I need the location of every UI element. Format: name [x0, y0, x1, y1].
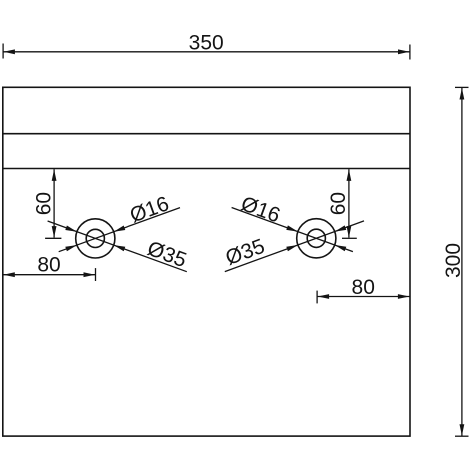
dimension 350 line: [3, 51, 410, 53]
hole H2 inner circle diameter 16: [307, 229, 325, 247]
svg-text:60: 60: [327, 192, 350, 215]
leader arrow d35 H2 upper-right: [335, 225, 347, 231]
svg-text:300: 300: [442, 243, 465, 278]
dimension 80 left arrow left: [3, 272, 15, 277]
dimension 60 left line: [53, 169, 55, 237]
panel outline rectangle 350x300: [3, 87, 410, 436]
dimension 80 left arrow right: [84, 272, 96, 277]
leader arrow d16 H2 lower-right: [335, 245, 347, 251]
hole H1 inner circle diameter 16: [86, 229, 104, 247]
dimension 350 extension tick left: [2, 44, 4, 59]
dimension 60 left center tick: [45, 237, 61, 239]
dimension 60 right center tick: [342, 237, 357, 239]
leader line diameter 35 hole H1: [48, 221, 187, 272]
svg-text:80: 80: [37, 254, 60, 277]
leader line diameter 16 hole H2: [232, 208, 353, 252]
dimension 300 arrow top: [460, 88, 465, 100]
svg-text:Ø35: Ø35: [144, 237, 189, 272]
leader arrow d35 H1 upper-left: [65, 226, 77, 232]
dimension 60 right arrow down: [347, 226, 352, 238]
leader arrow d16 H2 upper-left: [286, 225, 298, 231]
dimension 300 line: [461, 88, 463, 436]
hole H2 outer circle diameter 35: [297, 219, 336, 258]
svg-text:Ø16: Ø16: [127, 192, 172, 227]
svg-text:60: 60: [32, 192, 55, 215]
dimension 80 right extension tick: [316, 291, 318, 304]
dimension 300 extension tick top: [455, 86, 469, 88]
dimension 80 left extension tick: [95, 268, 97, 281]
dimension 60 left arrow down: [52, 226, 57, 238]
dimension 350 arrow right: [398, 49, 410, 54]
leader line diameter 16 hole H1: [59, 208, 180, 252]
dimension 300 extension tick bottom: [455, 435, 469, 437]
dimension 80 right arrow right: [398, 294, 410, 299]
svg-text:Ø16: Ø16: [238, 192, 283, 227]
dimension 300 arrow bottom: [460, 424, 465, 436]
leader arrow d16 H1 lower-left: [65, 245, 77, 251]
dimension 80 left line: [3, 274, 95, 276]
leader arrow d35 H1 lower-right: [114, 245, 126, 251]
leader arrow d35 H2 lower-left: [286, 245, 298, 251]
dimension 80 right arrow left: [318, 294, 330, 299]
leader arrow d16 H1 upper-right: [114, 226, 126, 232]
dimension 60 right line: [348, 169, 350, 237]
svg-text:350: 350: [189, 31, 224, 54]
panel upper edge line 2: [3, 168, 410, 170]
dimension 80 right line: [317, 296, 410, 298]
dimension 60 right arrow up: [347, 169, 352, 181]
dimension 350 arrow left: [3, 49, 15, 54]
dimension 350 extension tick right: [409, 45, 411, 60]
leader line diameter 35 hole H2: [225, 221, 364, 272]
dimension 60 left arrow up: [52, 169, 57, 181]
panel upper edge line 1: [3, 133, 410, 135]
svg-text:80: 80: [352, 276, 375, 299]
hole H1 outer circle diameter 35: [76, 219, 115, 258]
